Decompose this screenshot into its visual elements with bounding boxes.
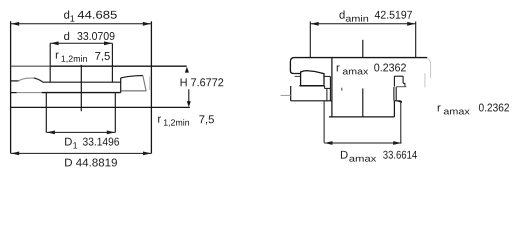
Damax extension left — [323, 101, 325, 143]
H arrow top — [185, 67, 189, 73]
cage step edge — [329, 76, 331, 101]
H arrow bottom — [187, 101, 191, 107]
outer edge / extension line right — [150, 21, 152, 153]
right roller bottom — [121, 90, 146, 92]
arrow Damax left — [324, 141, 332, 145]
arrow Damax right — [393, 141, 401, 145]
dimension line d1 — [11, 23, 151, 25]
housing bore wall — [393, 101, 395, 117]
fillet ghost arc — [427, 58, 430, 78]
housing step — [394, 100, 400, 102]
washer inner edge — [326, 88, 328, 102]
cage tick — [341, 88, 343, 91]
arrow D1 left — [47, 131, 55, 135]
cage step small edge — [324, 86, 326, 89]
H arrow bottom leader — [188, 89, 190, 104]
arrow d1 right — [143, 22, 151, 26]
right roller right edge — [143, 76, 146, 92]
arrow d left — [50, 41, 58, 45]
arrow d right — [104, 41, 112, 45]
housing washer edge / D1 extension right — [114, 93, 116, 133]
bore edge left — [49, 43, 51, 82]
label r1,2min 7,5 upper — [56, 52, 110, 63]
housing flag left — [393, 76, 395, 86]
housing double edge b — [395, 87, 397, 101]
extension line damin left — [309, 22, 311, 58]
center line lower — [362, 88, 364, 116]
label D1 33.1496 — [65, 138, 119, 149]
housing flag step — [403, 83, 405, 86]
mid line dark left — [11, 92, 17, 94]
mid line grey — [17, 92, 42, 94]
right roller left edge — [120, 78, 122, 93]
dimension line Damax — [324, 142, 401, 144]
fillet ghost edge — [424, 73, 426, 87]
dimension line D — [11, 152, 151, 154]
bore edge line — [331, 58, 333, 117]
label ramax 0.2362 lower — [438, 104, 509, 115]
mid line dark right — [42, 92, 121, 94]
shaft shoulder profile — [290, 58, 427, 74]
extension line damin right — [415, 22, 417, 58]
dimension line D1 — [47, 131, 116, 133]
label D 44.8819 — [65, 159, 117, 167]
label d 33.0709 — [64, 32, 114, 40]
housing flag base — [396, 86, 406, 88]
washer left edge — [290, 86, 292, 101]
arrow damin left — [311, 22, 319, 26]
housing corner blob — [396, 101, 402, 103]
label damin 42.5197 — [339, 10, 412, 21]
cage step top — [324, 75, 330, 77]
bottom face line with H leader — [11, 106, 190, 108]
center line — [80, 65, 82, 111]
left roller ghost rise — [19, 78, 34, 81]
top face line with H leader — [11, 65, 51, 67]
label r1,2min 7,5 lower — [158, 115, 214, 126]
washer grey tick — [281, 94, 291, 96]
arrow d1 left — [11, 22, 19, 26]
Damax extension right — [400, 101, 402, 144]
label Damax 33.6614 — [341, 151, 417, 162]
dimension line damin — [311, 23, 416, 25]
cage top line — [43, 81, 121, 83]
arrow damin right — [407, 22, 415, 26]
right roller top — [121, 76, 143, 78]
outer edge / extension line left — [10, 21, 12, 153]
cage step small bar — [325, 87, 331, 89]
housing face — [329, 116, 394, 118]
arrow D1 right — [107, 131, 115, 135]
center line upper — [362, 40, 364, 58]
arrow D left — [11, 152, 19, 156]
housing washer edge / D1 extension left — [45, 93, 47, 133]
label d1 44.685 — [64, 10, 117, 21]
housing flag top — [394, 75, 403, 77]
housing double edge a — [393, 87, 395, 101]
arrow D right — [143, 152, 151, 156]
washer bottom — [291, 100, 332, 102]
roller bottom — [299, 85, 324, 87]
left rim line — [11, 80, 19, 82]
rim ghost right — [149, 77, 151, 91]
shoulder lower lip — [295, 75, 301, 77]
left roller dark slope — [34, 78, 44, 82]
bore edge right — [111, 43, 113, 82]
label H 7.6772 — [181, 78, 224, 86]
housing flag right — [402, 76, 404, 83]
dimension line d — [50, 42, 112, 44]
roller profile — [301, 71, 324, 86]
label ramax 0.2362 upper — [337, 64, 406, 75]
